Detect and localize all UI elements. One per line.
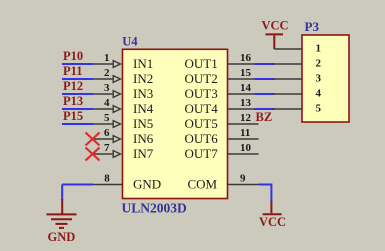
svg-text:1: 1 — [316, 43, 322, 55]
wire to VCC (bottom right) — [259, 185, 272, 203]
pin 12 OUT5 — [228, 112, 259, 124]
svg-text:OUT3: OUT3 — [185, 86, 218, 101]
svg-text:IN1: IN1 — [133, 56, 153, 71]
svg-text:8: 8 — [104, 173, 110, 185]
wire — [255, 78, 275, 80]
pin 11 OUT6 — [228, 127, 259, 139]
svg-text:4: 4 — [316, 88, 322, 100]
pin 9 COM — [228, 173, 259, 185]
svg-text:P15: P15 — [63, 109, 83, 123]
P3 pin 5 — [273, 103, 322, 115]
connector P3 — [302, 35, 349, 122]
svg-text:P10: P10 — [63, 49, 83, 63]
pin 6 IN6 with no-connect X — [86, 127, 121, 146]
wire to ground — [61, 185, 63, 201]
svg-text:BZ: BZ — [256, 110, 273, 124]
svg-text:11: 11 — [240, 127, 250, 139]
svg-text:IN6: IN6 — [133, 131, 154, 146]
P3 pin 3 — [273, 73, 322, 85]
pin 16 OUT1 — [228, 52, 258, 64]
svg-text:GND: GND — [133, 177, 161, 192]
wire — [255, 108, 275, 110]
svg-text:P3: P3 — [305, 19, 320, 34]
svg-text:2: 2 — [104, 67, 110, 79]
svg-text:15: 15 — [240, 67, 252, 79]
svg-text:OUT1: OUT1 — [185, 56, 218, 71]
IC U4 ULN2003D body — [123, 49, 228, 198]
P3 pin 2 — [273, 58, 322, 70]
svg-text:13: 13 — [240, 97, 252, 109]
pin names inside U4 — [133, 56, 218, 192]
svg-text:1: 1 — [104, 52, 110, 64]
svg-text:P12: P12 — [63, 79, 83, 93]
svg-text:3: 3 — [316, 73, 322, 85]
svg-text:VCC: VCC — [261, 19, 288, 33]
power VCC (bottom right) — [259, 201, 286, 229]
pin 5 IN5 — [62, 112, 120, 127]
pin 13 OUT4 — [228, 97, 258, 109]
wire — [255, 93, 275, 95]
ground — [47, 199, 77, 244]
svg-text:OUT4: OUT4 — [185, 101, 219, 116]
svg-text:2: 2 — [316, 58, 322, 70]
svg-text:GND: GND — [48, 230, 76, 244]
pin 1 IN1: wire + pin + arrow — [62, 52, 120, 67]
svg-text:P13: P13 — [63, 94, 83, 108]
svg-text:7: 7 — [104, 142, 110, 154]
pin 3 IN3 — [62, 82, 120, 97]
power VCC (top) — [261, 19, 288, 50]
svg-text:10: 10 — [240, 142, 252, 154]
svg-text:IN5: IN5 — [133, 116, 153, 131]
P3 pin 1 — [274, 43, 321, 55]
svg-text:IN4: IN4 — [133, 101, 154, 116]
svg-text:5: 5 — [104, 112, 110, 124]
svg-text:COM: COM — [188, 177, 218, 192]
svg-text:ULN2003D: ULN2003D — [122, 200, 188, 215]
pin 10 OUT7 — [228, 142, 259, 154]
svg-text:IN3: IN3 — [133, 86, 153, 101]
svg-text:IN2: IN2 — [133, 71, 153, 86]
svg-text:4: 4 — [104, 97, 110, 109]
P3 pin 4 — [273, 88, 322, 100]
svg-text:16: 16 — [240, 52, 252, 64]
svg-text:P11: P11 — [63, 64, 82, 78]
pin 8 GND — [62, 173, 122, 185]
svg-text:12: 12 — [240, 112, 252, 124]
pin 2 IN2 — [62, 67, 120, 82]
svg-text:OUT2: OUT2 — [185, 71, 218, 86]
svg-text:U4: U4 — [122, 35, 138, 49]
pin 15 OUT2 — [228, 67, 258, 79]
svg-text:6: 6 — [104, 127, 110, 139]
svg-text:14: 14 — [240, 82, 252, 94]
svg-text:IN7: IN7 — [133, 146, 154, 161]
wire — [255, 63, 275, 65]
svg-text:OUT5: OUT5 — [185, 116, 218, 131]
svg-text:9: 9 — [240, 173, 246, 185]
svg-text:VCC: VCC — [259, 215, 286, 229]
pin 7 IN7 with no-connect X — [86, 142, 121, 161]
pin 14 OUT3 — [228, 82, 258, 94]
svg-text:OUT7: OUT7 — [185, 146, 219, 161]
svg-text:3: 3 — [104, 82, 110, 94]
svg-text:5: 5 — [316, 103, 322, 115]
pin 4 IN4 — [62, 97, 120, 112]
svg-text:OUT6: OUT6 — [185, 131, 219, 146]
